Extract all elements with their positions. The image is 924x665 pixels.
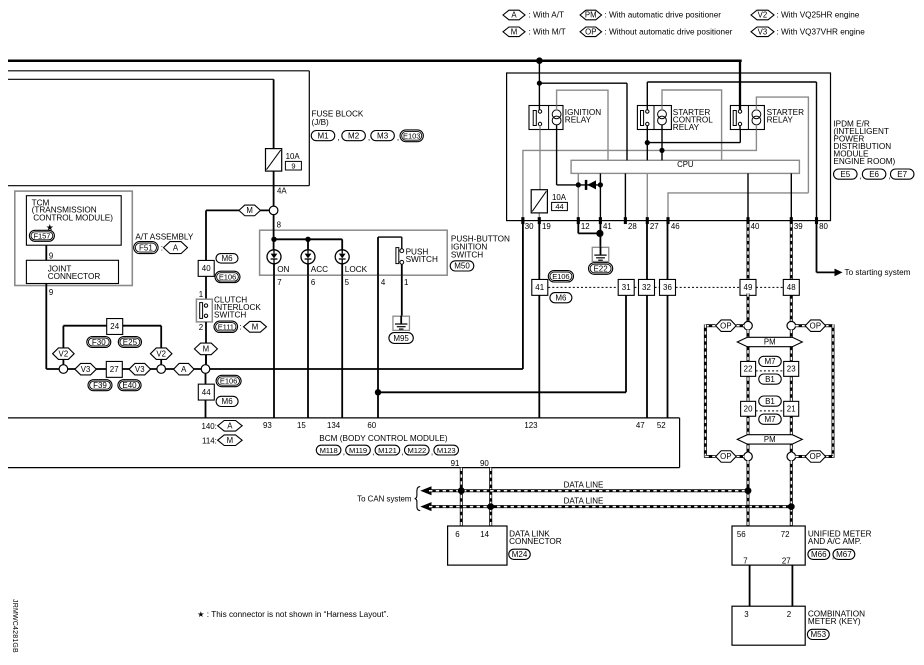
svg-text:RELAY: RELAY — [565, 115, 592, 124]
svg-text:M: M — [227, 436, 234, 445]
svg-text:A: A — [173, 243, 179, 252]
svg-text:32: 32 — [642, 283, 651, 292]
svg-text:9: 9 — [291, 161, 295, 170]
svg-text:M2: M2 — [348, 131, 360, 140]
svg-text:12: 12 — [581, 222, 590, 231]
svg-text:40: 40 — [202, 264, 211, 273]
svg-text:A: A — [227, 421, 233, 430]
svg-text:44: 44 — [555, 202, 563, 211]
svg-text:PM: PM — [585, 11, 597, 20]
svg-text:SWITCH: SWITCH — [451, 250, 483, 259]
svg-text:OP: OP — [720, 452, 731, 461]
svg-text:,: , — [860, 171, 862, 180]
svg-text:METER (KEY): METER (KEY) — [808, 617, 861, 626]
svg-text:,: , — [402, 447, 404, 456]
svg-text:8: 8 — [277, 220, 282, 229]
svg-text:44: 44 — [202, 388, 211, 397]
svg-text:28: 28 — [628, 222, 637, 231]
svg-text:: With automatic drive positio: : With automatic drive positioner — [605, 11, 722, 20]
svg-text:M53: M53 — [811, 630, 827, 639]
svg-text:4A: 4A — [277, 187, 287, 196]
svg-text:27: 27 — [110, 365, 119, 374]
svg-text:,: , — [337, 133, 339, 142]
svg-text:1: 1 — [404, 278, 408, 287]
svg-text:V2: V2 — [156, 349, 166, 358]
svg-text:BCM (BODY CONTROL MODULE): BCM (BODY CONTROL MODULE) — [319, 434, 448, 443]
svg-text:49: 49 — [744, 283, 753, 292]
svg-text:2: 2 — [199, 323, 203, 332]
svg-text:24: 24 — [110, 322, 119, 331]
svg-text:ENGINE ROOM): ENGINE ROOM) — [833, 157, 895, 166]
svg-text:DATA LINE: DATA LINE — [564, 481, 604, 490]
svg-text:E106: E106 — [552, 272, 569, 281]
svg-text:: With M/T: : With M/T — [529, 27, 566, 36]
svg-text:41: 41 — [535, 283, 544, 292]
svg-text:V2: V2 — [59, 349, 69, 358]
svg-text:M67: M67 — [836, 550, 852, 559]
svg-text:: With A/T: : With A/T — [529, 11, 564, 20]
svg-text:M95: M95 — [393, 334, 409, 343]
svg-text:DATA LINE: DATA LINE — [564, 496, 604, 505]
svg-text:OP: OP — [720, 321, 731, 330]
svg-text:E40: E40 — [122, 381, 137, 390]
svg-text:M121: M121 — [378, 446, 397, 455]
svg-text:19: 19 — [542, 222, 551, 231]
svg-text:40: 40 — [751, 222, 760, 231]
svg-text:M: M — [252, 322, 259, 331]
svg-text:M123: M123 — [437, 446, 456, 455]
svg-text:10A: 10A — [286, 152, 301, 161]
svg-text:F51: F51 — [139, 243, 153, 252]
svg-text:,: , — [372, 447, 374, 456]
svg-text:,: , — [368, 133, 370, 142]
svg-text:A/T ASSEMBLY: A/T ASSEMBLY — [135, 233, 193, 242]
svg-text:RELAY: RELAY — [673, 123, 700, 132]
svg-text:72: 72 — [781, 530, 790, 539]
svg-text:PM: PM — [764, 435, 776, 444]
svg-text:E25: E25 — [123, 338, 138, 347]
svg-text:M: M — [246, 206, 253, 215]
svg-text:6: 6 — [311, 278, 316, 287]
svg-text:E7: E7 — [897, 170, 907, 179]
svg-text:140:: 140: — [201, 422, 216, 431]
svg-text:15: 15 — [297, 421, 306, 430]
svg-text:M50: M50 — [454, 262, 470, 271]
svg-text:OP: OP — [585, 27, 596, 36]
svg-text:1: 1 — [199, 290, 203, 299]
svg-text:E6: E6 — [869, 170, 879, 179]
svg-text:V3: V3 — [135, 365, 145, 374]
svg-text:9: 9 — [49, 288, 54, 297]
svg-text:ACC: ACC — [311, 265, 328, 274]
svg-text:CONNECTOR: CONNECTOR — [48, 272, 101, 281]
svg-text:7: 7 — [277, 278, 281, 287]
svg-text:M3: M3 — [377, 131, 389, 140]
svg-text:90: 90 — [480, 459, 489, 468]
svg-text:M6: M6 — [555, 294, 567, 303]
svg-text:B1: B1 — [765, 375, 775, 384]
svg-text:46: 46 — [671, 222, 680, 231]
svg-text:★ : This connector is not show: ★ : This connector is not shown in “Harn… — [197, 610, 389, 619]
svg-text:RELAY: RELAY — [767, 115, 794, 124]
svg-text:E103: E103 — [403, 131, 420, 140]
svg-text:M6: M6 — [222, 397, 234, 406]
svg-text:To CAN system: To CAN system — [357, 494, 412, 503]
svg-text:: With VQ37VHR engine: : With VQ37VHR engine — [777, 27, 866, 36]
svg-text:14: 14 — [480, 530, 489, 539]
svg-text:E22: E22 — [593, 264, 608, 273]
svg-text:M66: M66 — [811, 550, 827, 559]
svg-text:OP: OP — [810, 321, 821, 330]
svg-text:22: 22 — [744, 365, 753, 374]
svg-text:9: 9 — [49, 251, 54, 260]
svg-text:10A: 10A — [552, 193, 567, 202]
svg-text:F39: F39 — [93, 381, 107, 390]
svg-text:,: , — [343, 447, 345, 456]
svg-text:A: A — [511, 11, 517, 20]
svg-text:56: 56 — [737, 530, 746, 539]
svg-text:60: 60 — [367, 421, 376, 430]
svg-text:M6: M6 — [221, 254, 233, 263]
svg-text:3: 3 — [744, 610, 749, 619]
svg-text::: : — [239, 323, 241, 332]
svg-text:31: 31 — [622, 283, 631, 292]
svg-text:M118: M118 — [320, 446, 338, 455]
svg-text:M: M — [203, 345, 210, 354]
svg-text:27: 27 — [782, 556, 791, 565]
svg-text:V2: V2 — [758, 11, 768, 20]
svg-text:39: 39 — [794, 222, 803, 231]
svg-text:PM: PM — [764, 338, 776, 347]
svg-text:134: 134 — [327, 421, 341, 430]
svg-text:: Without automatic drive posi: : Without automatic drive positioner — [605, 27, 733, 36]
svg-text:M24: M24 — [512, 550, 528, 559]
svg-text:LOCK: LOCK — [345, 265, 368, 274]
svg-text:27: 27 — [650, 222, 659, 231]
svg-text:20: 20 — [744, 404, 753, 413]
svg-text:To starting system: To starting system — [845, 268, 911, 277]
svg-text:M: M — [511, 27, 518, 36]
svg-text:E106: E106 — [219, 273, 236, 282]
svg-text:6: 6 — [455, 530, 460, 539]
svg-text:23: 23 — [787, 365, 796, 374]
svg-text:(J/B): (J/B) — [312, 118, 330, 127]
svg-text:ON: ON — [277, 265, 289, 274]
svg-text:114:: 114: — [202, 436, 217, 445]
svg-text:,: , — [397, 133, 399, 142]
svg-text:CPU: CPU — [677, 160, 694, 169]
svg-text:CONNECTOR: CONNECTOR — [509, 537, 562, 546]
svg-text:B1: B1 — [765, 397, 775, 406]
svg-text:48: 48 — [787, 283, 796, 292]
svg-text::: : — [161, 244, 163, 253]
svg-text:V3: V3 — [758, 27, 768, 36]
svg-text:36: 36 — [663, 283, 672, 292]
svg-text:93: 93 — [263, 421, 272, 430]
svg-text:5: 5 — [345, 278, 350, 287]
svg-text:V3: V3 — [81, 365, 91, 374]
svg-text:47: 47 — [636, 421, 645, 430]
svg-text:CONTROL MODULE): CONTROL MODULE) — [33, 213, 113, 222]
svg-text:123: 123 — [524, 421, 538, 430]
svg-text:M119: M119 — [349, 446, 367, 455]
svg-text:41: 41 — [603, 222, 612, 231]
svg-text:52: 52 — [657, 421, 666, 430]
svg-text:M7: M7 — [764, 415, 776, 424]
svg-text:A: A — [181, 365, 187, 374]
svg-text:2: 2 — [787, 610, 791, 619]
svg-text:AND A/C AMP.: AND A/C AMP. — [808, 537, 862, 546]
svg-text:21: 21 — [787, 404, 796, 413]
svg-text:M7: M7 — [764, 357, 776, 366]
svg-text:F30: F30 — [92, 338, 106, 347]
svg-text:91: 91 — [451, 459, 460, 468]
svg-text:,: , — [431, 447, 433, 456]
svg-text:: With VQ25HR engine: : With VQ25HR engine — [777, 11, 860, 20]
svg-text:80: 80 — [819, 222, 828, 231]
svg-text:E106: E106 — [220, 377, 237, 386]
svg-text:F157: F157 — [33, 231, 50, 240]
svg-text:E111: E111 — [218, 322, 234, 331]
svg-text:30: 30 — [525, 222, 534, 231]
svg-text:4: 4 — [381, 278, 386, 287]
svg-text:OP: OP — [810, 452, 821, 461]
svg-text:7: 7 — [743, 556, 747, 565]
svg-text:E5: E5 — [840, 170, 850, 179]
svg-text:M1: M1 — [317, 131, 329, 140]
svg-text:JRMWC4281GB: JRMWC4281GB — [11, 599, 18, 653]
svg-text:M122: M122 — [407, 446, 426, 455]
svg-text:SWITCH: SWITCH — [214, 310, 246, 319]
svg-text:SWITCH: SWITCH — [406, 255, 438, 264]
